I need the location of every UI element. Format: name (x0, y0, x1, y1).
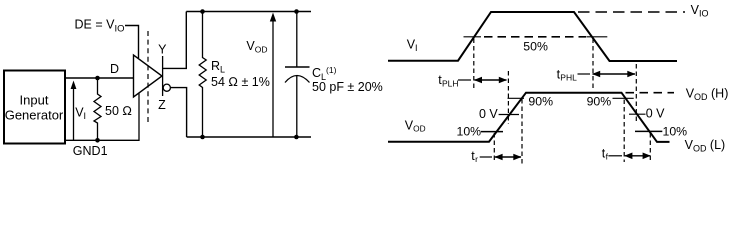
svg-text:50 Ω: 50 Ω (105, 104, 132, 118)
svg-text:VOD (H): VOD (H) (686, 87, 729, 103)
wire bottom rail (187, 136, 311, 138)
svg-text:90%: 90% (587, 95, 612, 109)
waveform VOD (388, 93, 670, 142)
90% tick left (508, 97, 525, 99)
0V tick left (499, 114, 519, 116)
svg-text:Z: Z (158, 98, 166, 112)
tr arrow (480, 156, 492, 158)
dashed vertical VOD rise 90% (521, 99, 523, 164)
node D junction (95, 76, 100, 81)
svg-text:PHL: PHL (560, 73, 577, 83)
svg-text:Input: Input (20, 93, 49, 108)
0V tick right (629, 113, 646, 115)
VI measurement arrow (73, 86, 75, 140)
tf arrow (608, 155, 622, 157)
dashed vertical VOD rise 10% (493, 133, 495, 163)
wire top rail (186, 11, 311, 13)
svg-text:10%: 10% (457, 125, 482, 139)
50% level line (464, 36, 482, 38)
wire Y output stub (162, 56, 164, 96)
svg-text:10%: 10% (663, 125, 688, 139)
capacitor CL (296, 12, 298, 68)
svg-text:r: r (475, 154, 478, 164)
wire GND1 (65, 93, 139, 140)
inverting output bubble (163, 84, 170, 91)
VOD measurement arrow (272, 20, 274, 137)
10% tick right (635, 130, 662, 132)
tPHL arrow (578, 73, 591, 75)
op-amp U1 driver triangle (134, 55, 163, 97)
svg-text:GND1: GND1 (73, 144, 108, 158)
svg-text:90%: 90% (528, 95, 553, 109)
90% tick right (613, 97, 634, 99)
svg-text:0 V: 0 V (646, 107, 665, 121)
waveform VI (388, 12, 677, 61)
wire Y to load (163, 12, 187, 69)
dashed vertical VI rise 50% (473, 39, 475, 89)
tPLH arrow (458, 79, 471, 81)
node CL bottom (294, 135, 299, 140)
10% tick left (481, 131, 503, 133)
node RL top (200, 9, 205, 14)
VOD(H) level dashed line (626, 92, 675, 94)
resistor RL (199, 12, 206, 138)
svg-text:Generator: Generator (5, 108, 64, 123)
svg-text:Y: Y (158, 42, 167, 56)
node CL top (294, 9, 299, 14)
wire Z to load (171, 88, 187, 137)
input generator box (4, 71, 65, 144)
svg-text:PLH: PLH (442, 78, 459, 88)
svg-text:54 Ω ± 1%: 54 Ω ± 1% (211, 75, 270, 89)
svg-text:50 pF ± 20%: 50 pF ± 20% (312, 80, 383, 94)
dashed vertical VOD fall 90% (623, 100, 625, 163)
dashed vertical VOD fall 10% (649, 133, 651, 162)
dashed vertical VI fall 50% (592, 39, 594, 89)
VIO level dashed line (578, 11, 685, 13)
svg-text:0 V: 0 V (479, 107, 498, 121)
dashed vertical VOD rise 0V (507, 71, 509, 124)
resistor 50 ohm (94, 78, 101, 140)
svg-text:50%: 50% (523, 40, 548, 54)
node RL bottom (200, 135, 205, 140)
wire D input (65, 77, 134, 79)
wire DE enable (125, 26, 139, 59)
dashed vertical VOD fall 0V (635, 64, 637, 124)
node GND1 junction (95, 138, 100, 143)
DE enable dashed line (147, 31, 149, 123)
svg-text:D: D (110, 62, 119, 76)
